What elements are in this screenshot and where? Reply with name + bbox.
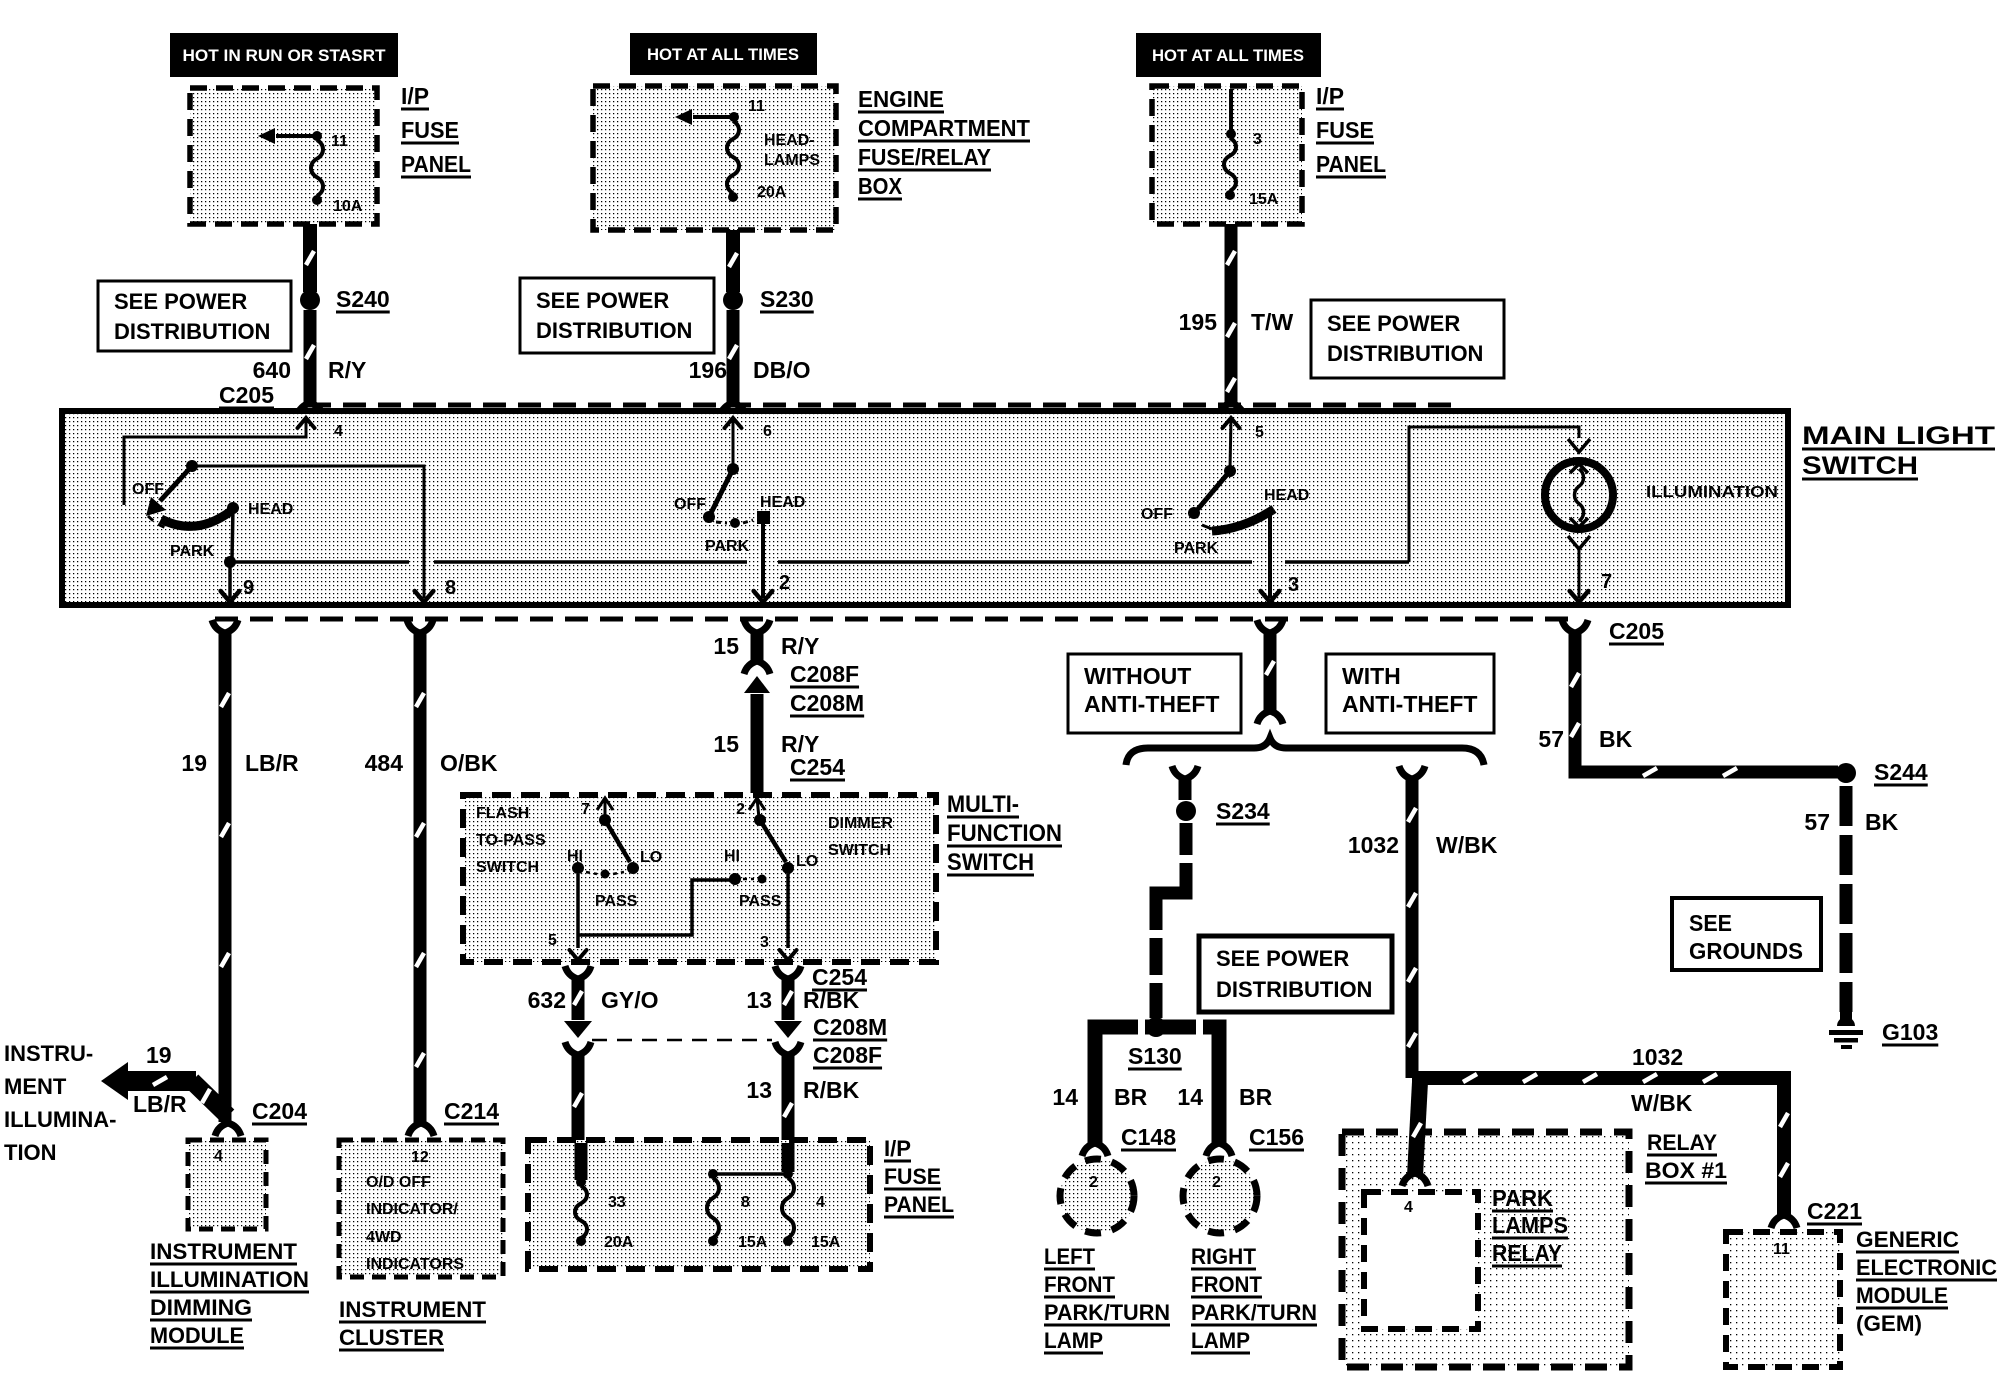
svg-text:3: 3 [1288, 574, 1299, 596]
svg-text:C208F: C208F [790, 661, 859, 687]
svg-text:S130: S130 [1128, 1043, 1182, 1069]
svg-text:DB/O: DB/O [753, 357, 811, 383]
svg-text:SEE POWER: SEE POWER [114, 289, 247, 314]
dimmer wiper arm [760, 820, 786, 862]
note box: SEE POWER DISTRIBUTION (right) [1311, 300, 1504, 378]
wire 195 T/W [1218, 224, 1244, 416]
right switch lever arc [1212, 509, 1274, 531]
wire 57 BK S244 to G103 (dashed) [1840, 786, 1853, 1012]
svg-text:WITH: WITH [1342, 663, 1401, 689]
flash-to-pass wiper arm [605, 820, 630, 862]
wire 1032 W/BK (vertical) [1399, 766, 1425, 1078]
label O/D OFF INDICATOR/4WD INDICATORS [366, 1174, 464, 1273]
wire from fuse box to S230 [729, 230, 737, 292]
label W/BK (at GEM run) [1631, 1090, 1693, 1116]
svg-text:5: 5 [1255, 424, 1264, 441]
HI contact (flash-to-pass) [567, 848, 584, 874]
svg-text:HOT AT ALL TIMES: HOT AT ALL TIMES [647, 45, 799, 64]
svg-text:PARK: PARK [705, 538, 750, 555]
svg-text:MENT: MENT [4, 1074, 67, 1099]
svg-text:MAIN LIGHT: MAIN LIGHT [1802, 422, 1995, 450]
svg-text:GROUNDS: GROUNDS [1689, 938, 1803, 964]
svg-text:20A: 20A [757, 184, 787, 201]
wire 640 R/Y [297, 310, 323, 416]
svg-text:HEAD-: HEAD- [764, 132, 815, 149]
svg-text:13: 13 [746, 987, 772, 1013]
svg-text:C214: C214 [444, 1098, 499, 1124]
I/P fuse panel box (bottom) [528, 1140, 870, 1269]
svg-text:C221: C221 [1807, 1198, 1862, 1224]
svg-text:4: 4 [334, 423, 343, 440]
dimmer pin 2 arrow [736, 798, 765, 818]
svg-text:LO: LO [640, 849, 662, 866]
label OFF (left switch) [132, 481, 164, 498]
svg-text:MODULE: MODULE [150, 1323, 244, 1348]
PASS contact (dimmer) [739, 875, 782, 911]
svg-text:ANTI-THEFT: ANTI-THEFT [1342, 691, 1477, 717]
svg-text:DIMMER: DIMMER [828, 815, 893, 832]
wire HEAD contact to pin 9 [221, 508, 240, 602]
label 13 R/BK (upper) [746, 987, 859, 1013]
wire from pin 5 to right pivot [1230, 419, 1231, 469]
svg-text:BOX #1: BOX #1 [1645, 1158, 1727, 1183]
svg-text:15A: 15A [811, 1234, 841, 1251]
label INSTRUMENT ILLUMINATION (net) [4, 1041, 116, 1165]
fuse 3, 15A [1224, 89, 1236, 200]
pin 11 label [331, 133, 348, 150]
svg-text:OFF: OFF [1141, 506, 1173, 523]
label 1032 (at GEM run) [1632, 1044, 1683, 1070]
svg-text:8: 8 [741, 1194, 750, 1211]
LO contact (dimmer) [782, 853, 818, 874]
label PARK LAMPS RELAY [1492, 1185, 1568, 1266]
HI contact (dimmer) [724, 848, 741, 885]
wire 15 R/Y (lower) [751, 694, 764, 793]
wire from fuse panel to S240 [306, 224, 314, 292]
svg-text:INDICATORS: INDICATORS [366, 1256, 464, 1273]
right switch wiper arm to OFF [1188, 471, 1230, 519]
svg-text:CLUSTER: CLUSTER [339, 1325, 444, 1350]
svg-text:ILLUMINATION: ILLUMINATION [1646, 484, 1778, 501]
connector C204 [215, 1098, 307, 1136]
pin 3 [1288, 574, 1299, 596]
svg-text:OFF: OFF [132, 481, 164, 498]
svg-text:15A: 15A [1249, 191, 1279, 208]
svg-text:FLASH: FLASH [476, 805, 529, 822]
pin 11 label [748, 98, 765, 115]
label S230 [760, 286, 814, 312]
splice S230 [723, 290, 743, 310]
svg-text:PARK: PARK [1492, 1185, 1553, 1211]
svg-text:TION: TION [4, 1140, 57, 1165]
svg-text:DISTRIBUTION: DISTRIBUTION [1327, 341, 1483, 366]
flash-to-pass pivot [599, 814, 611, 826]
label INSTRUMENT CLUSTER [339, 1297, 487, 1350]
wire 1032 W/BK (horizontal run to GEM) [1412, 1074, 1788, 1215]
wire 632 to I/P fuse panel [574, 1054, 582, 1140]
pin 4 (dimming module) [214, 1148, 223, 1165]
svg-text:GENERIC: GENERIC [1856, 1227, 1959, 1252]
svg-text:HEAD: HEAD [1264, 487, 1309, 504]
svg-text:COMPARTMENT: COMPARTMENT [858, 115, 1030, 141]
wire 632 GY/O [565, 966, 591, 1020]
svg-text:SWITCH: SWITCH [1802, 452, 1918, 480]
svg-text:GY/O: GY/O [601, 987, 659, 1013]
svg-text:C148: C148 [1121, 1124, 1176, 1150]
connector link line C208 [592, 1039, 772, 1042]
label MULTI-FUNCTION SWITCH [947, 791, 1062, 876]
label INSTRUMENT ILLUMINATION DIMMING MODULE [150, 1239, 309, 1348]
I/P fuse panel box (top right) [1152, 86, 1302, 224]
svg-text:LEFT: LEFT [1044, 1244, 1096, 1269]
value 10A [333, 198, 363, 215]
svg-text:4WD: 4WD [366, 1229, 402, 1246]
connector C205 label (top) [219, 382, 274, 408]
park lamps relay (inner box) [1364, 1192, 1478, 1329]
pin 8 [445, 577, 456, 599]
power label: HOT AT ALL TIMES (engine compartment) [630, 33, 817, 75]
svg-text:HOT AT ALL TIMES: HOT AT ALL TIMES [1152, 46, 1304, 65]
wire HEAD contact to pin 2 [754, 524, 773, 602]
svg-text:PASS: PASS [595, 893, 638, 910]
svg-text:C208F: C208F [813, 1042, 882, 1068]
label I/P FUSE PANEL (top left) [401, 83, 471, 177]
svg-text:11: 11 [748, 98, 765, 115]
svg-text:1032: 1032 [1632, 1044, 1683, 1070]
svg-text:BK: BK [1865, 809, 1899, 835]
svg-text:PARK: PARK [1174, 540, 1219, 557]
svg-text:640: 640 [253, 357, 291, 383]
svg-text:LAMP: LAMP [1191, 1328, 1250, 1353]
svg-text:W/BK: W/BK [1631, 1090, 1693, 1116]
svg-text:SWITCH: SWITCH [947, 849, 1034, 876]
pin 4 (relay) [1404, 1199, 1413, 1216]
svg-text:PANEL: PANEL [1316, 151, 1386, 177]
pin 8 label [741, 1194, 750, 1211]
svg-text:632: 632 [528, 987, 566, 1013]
svg-text:I/P: I/P [1316, 83, 1344, 109]
wire 13 R/BK (lower) [784, 1054, 792, 1140]
svg-text:FUSE/RELAY: FUSE/RELAY [858, 144, 991, 170]
svg-text:INSTRUMENT: INSTRUMENT [339, 1297, 487, 1322]
wire 196 DB/O [720, 310, 746, 416]
pin 3 label [1253, 131, 1262, 148]
svg-text:HOT IN RUN OR STASRT: HOT IN RUN OR STASRT [183, 46, 387, 65]
label RIGHT FRONT PARK/TURN LAMP [1191, 1244, 1317, 1353]
middle switch wiper arm to OFF [703, 469, 733, 523]
svg-text:O/BK: O/BK [440, 750, 498, 776]
label PARK (left switch) [170, 543, 215, 560]
wire S234 to S130 (dashed) [1148, 823, 1194, 1018]
pin 5 (MFS) [548, 932, 557, 949]
label LEFT FRONT PARK/TURN LAMP [1044, 1244, 1170, 1353]
svg-text:SWITCH: SWITCH [476, 859, 539, 876]
svg-text:SEE POWER: SEE POWER [536, 288, 669, 313]
svg-text:HI: HI [567, 848, 583, 865]
wire LO to pin 3 (MFS) [780, 874, 797, 960]
svg-text:C205: C205 [1609, 618, 1664, 644]
svg-text:57: 57 [1538, 726, 1564, 752]
svg-text:7: 7 [1601, 571, 1612, 593]
svg-text:FRONT: FRONT [1044, 1272, 1116, 1297]
svg-text:RELAY: RELAY [1492, 1240, 1562, 1266]
svg-text:57: 57 [1804, 809, 1830, 835]
connector C214 [408, 1098, 499, 1136]
svg-text:S230: S230 [760, 286, 814, 312]
svg-text:INSTRU-: INSTRU- [4, 1041, 93, 1066]
main light switch box [62, 411, 1788, 605]
svg-text:DISTRIBUTION: DISTRIBUTION [114, 319, 270, 344]
label 14 BR (right) [1177, 1084, 1272, 1110]
svg-text:R/Y: R/Y [781, 633, 819, 659]
splice S244 [1836, 763, 1856, 783]
fuse 4, 15A [782, 1178, 794, 1246]
svg-text:PANEL: PANEL [401, 151, 471, 177]
instrument illumination dimming module box [188, 1140, 266, 1229]
svg-text:ENGINE: ENGINE [858, 86, 944, 112]
svg-text:14: 14 [1177, 1084, 1203, 1110]
label S244 [1874, 759, 1928, 785]
label OFF (middle switch) [674, 496, 706, 513]
wire 484 O/BK from pin 8 [407, 620, 433, 1124]
svg-text:2: 2 [1089, 1174, 1098, 1191]
label 15 R/Y (upper) [713, 633, 819, 659]
branch arrow to instrument illumination [101, 1062, 228, 1116]
svg-text:FUSE: FUSE [401, 117, 459, 143]
svg-text:T/W: T/W [1251, 309, 1293, 335]
multi-function switch box [463, 795, 936, 962]
svg-text:G103: G103 [1882, 1019, 1938, 1045]
svg-text:PANEL: PANEL [884, 1192, 954, 1217]
label C208M C208F [813, 1014, 887, 1068]
wire 15 R/Y (upper) [744, 620, 770, 674]
svg-text:4: 4 [816, 1194, 825, 1211]
PARK bus wire across switch [230, 560, 1409, 564]
svg-text:15: 15 [713, 633, 739, 659]
wire 57 BK from pin 7 [1562, 620, 1838, 776]
pin 3 (MFS) [760, 934, 769, 951]
svg-text:19: 19 [146, 1042, 172, 1068]
wire HI to pin 5 and cross-link [570, 874, 734, 960]
svg-text:4: 4 [1404, 1199, 1413, 1216]
splice S240 [300, 290, 320, 310]
S130 bus bar with drops [1095, 1019, 1219, 1146]
connector C208F/C208M (arrow) [744, 676, 770, 693]
svg-text:LAMPS: LAMPS [1492, 1212, 1568, 1238]
note box: WITHOUT ANTI-THEFT [1068, 654, 1241, 733]
fuse 11 HEADLAMPS 20A with feed arrow [675, 109, 739, 202]
label OFF (right switch) [1141, 506, 1173, 523]
ground G103 [1829, 1008, 1863, 1049]
connector C254 label (lower) [812, 964, 867, 990]
svg-text:8: 8 [445, 577, 456, 599]
power label: HOT IN RUN OR STASRT [170, 33, 398, 77]
right switch pivot [1224, 465, 1236, 477]
label HEAD-LAMPS [764, 132, 820, 169]
svg-text:FRONT: FRONT [1191, 1272, 1263, 1297]
pin 7 [1601, 571, 1612, 593]
svg-text:PASS: PASS [739, 893, 782, 910]
left switch pivot junction [186, 460, 198, 472]
label 640 R/Y [253, 357, 367, 383]
svg-text:FUSE: FUSE [1316, 117, 1374, 143]
label 14 BR (left) [1052, 1084, 1147, 1110]
svg-text:SWITCH: SWITCH [828, 842, 891, 859]
pin 12 (instrument cluster) [411, 1149, 429, 1166]
svg-text:R/BK: R/BK [803, 987, 860, 1013]
label S130 [1128, 1043, 1182, 1069]
svg-text:BR: BR [1114, 1084, 1148, 1110]
fuse 8, 15A [707, 1178, 719, 1246]
label FLASH TO-PASS SWITCH [476, 805, 546, 876]
svg-text:C156: C156 [1249, 1124, 1304, 1150]
label 195 T/W [1179, 309, 1294, 335]
svg-text:C254: C254 [790, 754, 845, 780]
right front park/turn lamp [1183, 1159, 1257, 1233]
wire 19 LB/R from pin 9 [212, 620, 238, 1122]
HEAD contact (left switch) [227, 501, 293, 518]
power label: HOT AT ALL TIMES (I/P fuse panel) [1136, 33, 1321, 77]
pin 5 [1223, 418, 1265, 441]
label 1032 W/BK [1348, 832, 1498, 858]
label PARK (middle switch) [705, 538, 750, 555]
engine compartment fuse/relay box [593, 86, 836, 230]
svg-text:LB/R: LB/R [245, 750, 299, 776]
svg-text:3: 3 [760, 934, 769, 951]
relay box #1 [1342, 1132, 1629, 1367]
label 57 BK (lower) [1804, 809, 1898, 835]
svg-text:TO-PASS: TO-PASS [476, 832, 546, 849]
svg-text:15: 15 [713, 731, 739, 757]
svg-text:RIGHT: RIGHT [1191, 1244, 1257, 1269]
label ENGINE COMPARTMENT FUSE/RELAY BOX [858, 86, 1030, 199]
svg-text:11: 11 [331, 133, 348, 150]
label PARK (right switch) [1174, 540, 1219, 557]
svg-text:6: 6 [763, 423, 772, 440]
connector C205 dashed line (top) [308, 403, 1460, 408]
svg-text:LB/R: LB/R [133, 1091, 187, 1117]
middle switch pivot [727, 463, 739, 475]
svg-text:1032: 1032 [1348, 832, 1399, 858]
svg-text:FUNCTION: FUNCTION [947, 820, 1062, 847]
svg-text:R/Y: R/Y [328, 357, 366, 383]
middle switch PARK contact [716, 518, 753, 528]
wire lamp to pin 7 [1568, 536, 1590, 602]
svg-text:C208M: C208M [813, 1014, 887, 1040]
svg-text:OFF: OFF [674, 496, 706, 513]
wire from pin 3 to brace [1257, 620, 1283, 724]
label 196 DB/O [689, 357, 811, 383]
pin 4 [298, 418, 344, 440]
connector C221 [1771, 1198, 1862, 1228]
svg-text:ELECTRONIC: ELECTRONIC [1856, 1255, 1997, 1280]
svg-text:33: 33 [608, 1194, 626, 1211]
svg-text:HI: HI [724, 848, 740, 865]
connector C254 label (upper) [790, 754, 845, 780]
svg-text:14: 14 [1052, 1084, 1078, 1110]
label S240 [336, 286, 390, 312]
svg-text:484: 484 [365, 750, 404, 776]
wire pivot to pin 8 [192, 466, 433, 602]
value 15A (right) [811, 1234, 841, 1251]
svg-text:2: 2 [779, 572, 790, 594]
label RELAY BOX #1 [1645, 1130, 1727, 1183]
flash-to-pass pin 7 arrow [581, 798, 613, 818]
svg-text:RELAY: RELAY [1647, 1130, 1717, 1155]
label 19 LB/R (upper) [181, 750, 299, 776]
svg-text:PARK/TURN: PARK/TURN [1044, 1300, 1170, 1325]
illumination lamp [1545, 461, 1613, 529]
wire 13 R/BK (upper) [775, 966, 801, 1020]
note box: WITH ANTI-THEFT [1326, 654, 1494, 733]
svg-text:INSTRUMENT: INSTRUMENT [150, 1239, 298, 1264]
label 19 LB/R (at arrow) [133, 1042, 187, 1117]
svg-text:PARK: PARK [170, 543, 215, 560]
label 15 R/Y (lower) [713, 731, 819, 757]
svg-text:PARK/TURN: PARK/TURN [1191, 1300, 1317, 1325]
HEAD contact (right switch) [1264, 487, 1309, 504]
I/P fuse panel box (top left) [190, 88, 377, 224]
label I/P FUSE PANEL (top right) [1316, 83, 1386, 177]
wire from pin 4 to OFF contact [124, 419, 306, 505]
instrument cluster box [339, 1140, 503, 1277]
PASS contact (flash-to-pass) [586, 870, 638, 911]
svg-text:19: 19 [181, 750, 207, 776]
svg-text:12: 12 [411, 1149, 429, 1166]
connector C208 (632 side, arrow) [564, 1021, 592, 1055]
svg-text:SEE POWER: SEE POWER [1327, 311, 1460, 336]
generic electronic module box [1726, 1232, 1840, 1367]
note box: SEE POWER DISTRIBUTION (bottom) [1199, 936, 1392, 1012]
svg-text:ANTI-THEFT: ANTI-THEFT [1084, 691, 1219, 717]
label DIMMER SWITCH [828, 815, 893, 859]
svg-text:2: 2 [1212, 1174, 1221, 1191]
wire from pin 6 to middle pivot [732, 419, 735, 467]
value 20A [604, 1234, 634, 1251]
svg-text:(GEM): (GEM) [1856, 1311, 1922, 1336]
label 57 BK (upper) [1538, 726, 1632, 752]
pin 6 [725, 418, 773, 440]
svg-text:ILLUMINA-: ILLUMINA- [4, 1107, 116, 1132]
pin 33 label [608, 1194, 626, 1211]
svg-text:R/BK: R/BK [803, 1077, 860, 1103]
svg-text:10A: 10A [333, 198, 363, 215]
left switch lever arc [161, 511, 231, 526]
left switch travel dashes [148, 516, 170, 529]
svg-text:C208M: C208M [790, 690, 864, 716]
label 13 R/BK (lower) [746, 1077, 859, 1103]
wire PARK bus to illumination lamp [1409, 427, 1590, 562]
svg-text:C204: C204 [252, 1098, 307, 1124]
brace (anti-theft options) [1126, 738, 1484, 765]
svg-text:LAMP: LAMP [1044, 1328, 1103, 1353]
pin 9 [243, 577, 254, 599]
wire to S234 [1172, 766, 1198, 800]
svg-text:SEE POWER: SEE POWER [1216, 946, 1349, 971]
svg-text:ILLUMINATION: ILLUMINATION [150, 1267, 309, 1292]
svg-text:I/P: I/P [401, 83, 429, 109]
right switch travel dash [1202, 525, 1212, 529]
svg-text:C205: C205 [219, 382, 274, 408]
svg-text:7: 7 [581, 801, 590, 818]
svg-text:3: 3 [1253, 131, 1262, 148]
label ILLUMINATION [1646, 484, 1778, 501]
svg-text:DISTRIBUTION: DISTRIBUTION [1216, 977, 1372, 1002]
svg-text:LAMPS: LAMPS [764, 152, 820, 169]
splice S130 [1146, 1017, 1166, 1037]
svg-text:S244: S244 [1874, 759, 1928, 785]
svg-text:MULTI-: MULTI- [947, 791, 1019, 818]
